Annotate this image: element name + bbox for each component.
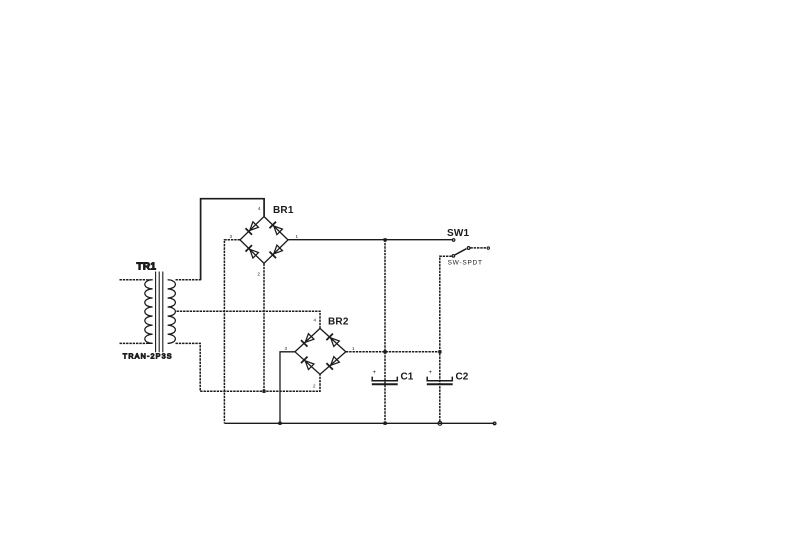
bridge BR1 — [230, 205, 299, 277]
capacitor C2 — [427, 370, 469, 384]
svg-text:SW1: SW1 — [447, 228, 470, 239]
svg-text:BR1: BR1 — [273, 205, 294, 216]
BR2 diode upper-left — [301, 333, 314, 346]
BR1 diode upper-right — [269, 222, 282, 235]
wire: BR1 pin 1 right to SW1 throw — [288, 239, 452, 241]
svg-text:TRAN-2P3S: TRAN-2P3S — [123, 352, 173, 361]
BR1 diode lower-right — [269, 245, 282, 258]
svg-text:1: 1 — [296, 234, 299, 239]
wire: BR2 pin 1 right to C2 branch — [346, 351, 440, 353]
svg-text:BR2: BR2 — [328, 317, 349, 328]
TR1 core line 1 — [155, 272, 157, 353]
wire: BR2 pin 3 left and down to bottom bus — [280, 352, 295, 424]
BR1 diode upper-left — [245, 221, 258, 234]
C2 bottom plate — [427, 383, 453, 385]
svg-text:C2: C2 — [456, 372, 469, 383]
BR1 diode lower-left — [245, 245, 258, 258]
svg-text:4: 4 — [314, 318, 317, 323]
C2 top plate bracket — [427, 377, 452, 381]
wire: bottom bus — [224, 422, 494, 424]
svg-text:1: 1 — [352, 346, 355, 351]
wire: BR1 pin 3 left and down to bottom bus — [224, 240, 240, 424]
svg-text:3: 3 — [230, 234, 233, 239]
svg-text:3: 3 — [285, 346, 288, 351]
svg-text:2: 2 — [313, 384, 316, 389]
wire: SW1 output stub — [470, 247, 486, 249]
BR2 diode lower-left — [301, 357, 314, 370]
BR1 diamond outline — [240, 217, 288, 264]
svg-text:+: + — [373, 370, 377, 376]
wire: BR1 pin 2 down to junction — [263, 264, 265, 392]
junction dot at BR2 output and C1 branch — [384, 350, 387, 353]
svg-text:2: 2 — [258, 272, 261, 277]
wire: DC positive vertical through C1 — [384, 240, 386, 424]
SW1 pole contact circle — [452, 255, 455, 258]
junction ring at C2 branch and bottom bus — [438, 422, 442, 426]
TR1 primary top pin wire — [120, 279, 147, 281]
TR1 primary winding — [145, 280, 153, 344]
wire: secondary center tap to BR2 pin 4 — [177, 311, 321, 328]
BR2 diamond outline — [295, 328, 346, 374]
junction dot at C1 branch and bottom bus — [384, 422, 387, 425]
svg-text:C1: C1 — [401, 372, 414, 383]
svg-text:TR1: TR1 — [137, 262, 157, 273]
TR1 primary pin hooks — [147, 280, 153, 344]
TR1 secondary winding — [168, 280, 176, 344]
C1 top plate bracket — [372, 377, 397, 381]
wire: up corner and across top to BR1 pin 4 — [201, 199, 265, 281]
BR2 diode lower-right — [326, 356, 339, 369]
svg-text:SW-SPDT: SW-SPDT — [448, 260, 483, 267]
bus end terminal — [493, 422, 496, 425]
wire: secondary bottom pin down and right to BR2 pin 2 — [176, 343, 321, 391]
junction dot at DC+ and SW wire — [384, 238, 387, 241]
TR1 primary bottom pin wire — [120, 342, 147, 344]
wire: secondary top pin to corner — [176, 279, 201, 281]
junction dot at BR2 output and C2 branch — [438, 350, 441, 353]
SW1 common contact circle — [467, 247, 470, 250]
svg-text:4: 4 — [258, 206, 261, 211]
capacitor C1 — [372, 370, 414, 384]
bridge BR2 — [285, 317, 356, 389]
SW1 lever — [455, 249, 467, 255]
SW1 output terminal — [487, 247, 489, 249]
switch SW1 — [447, 228, 489, 267]
transformer TR1 — [120, 262, 176, 361]
TR1 core line 3 — [162, 272, 164, 353]
wire: SW1 pole branch down through C2 — [440, 256, 452, 423]
junction dot at BR2 pin 3 and bottom bus — [278, 422, 281, 425]
svg-text:+: + — [429, 370, 433, 376]
TR1 core line 2 — [158, 272, 160, 353]
C1 bottom plate — [372, 383, 398, 385]
BR2 diode upper-right — [326, 334, 339, 347]
SW1 throw contact circle — [452, 239, 455, 242]
junction dot at BR1 pin 2 and return wire — [262, 390, 265, 393]
